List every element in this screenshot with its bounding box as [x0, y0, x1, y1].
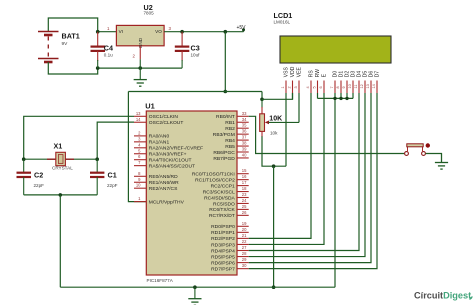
svg-text:X1: X1 [54, 142, 63, 151]
wire +5V to MCLR [128, 92, 146, 202]
wire LCD VSS [285, 93, 287, 166]
node +5V branch junction [224, 30, 228, 34]
svg-text:1: 1 [281, 86, 285, 88]
wire D0-D3 tie bar [318, 97, 354, 99]
node bottom ground junction [193, 285, 197, 289]
svg-text:33: 33 [242, 111, 247, 116]
svg-text:VI: VI [119, 29, 123, 34]
wire LCD D6 to RD6 [249, 93, 371, 263]
op-amp U1 PIC16F877A body [145, 101, 237, 283]
wire LCD RW to data bar [317, 93, 319, 98]
svg-text:40: 40 [242, 152, 247, 157]
svg-text:RB5: RB5 [225, 144, 235, 150]
svg-text:VSS: VSS [284, 67, 290, 78]
svg-text:13: 13 [136, 111, 141, 116]
svg-text:10K: 10K [269, 116, 282, 123]
svg-text:7805: 7805 [144, 11, 155, 16]
U1 right pins [192, 111, 249, 273]
U1 left pins [134, 111, 203, 206]
svg-text:RD4/PSP4: RD4/PSP4 [211, 248, 235, 254]
LCD1 pins [281, 66, 381, 93]
wire crystal horizontal [24, 158, 98, 160]
node crystal ground junction [59, 193, 63, 197]
pin 1 label U2 [107, 26, 110, 31]
svg-text:26: 26 [242, 210, 247, 215]
node crystal left [22, 157, 26, 161]
svg-text:VO: VO [155, 29, 162, 34]
wire pot junction to ground rail [273, 166, 275, 287]
svg-text:9: 9 [342, 86, 346, 88]
svg-text:RD2/PSP2: RD2/PSP2 [211, 236, 235, 242]
capacitor C4 [91, 32, 114, 68]
svg-text:8: 8 [336, 86, 340, 88]
node D2 bar junction [345, 97, 348, 100]
wire pot bottom [262, 136, 286, 166]
svg-text:U1: U1 [145, 101, 154, 110]
svg-text:10k: 10k [270, 130, 278, 135]
wire +5V horizontal rail [128, 91, 262, 93]
svg-text:RW: RW [315, 69, 321, 78]
svg-text:10: 10 [348, 84, 352, 88]
svg-text:RC1/T1OSI/CCP2: RC1/T1OSI/CCP2 [195, 177, 235, 183]
svg-text:RE1/AN6/WR: RE1/AN6/WR [149, 180, 179, 186]
svg-text:22pF: 22pF [107, 183, 118, 188]
svg-text:28: 28 [242, 251, 247, 256]
svg-text:21: 21 [242, 233, 247, 238]
svg-text:38: 38 [242, 141, 247, 146]
svg-text:RC3/SCK/SCL: RC3/SCK/SCL [203, 189, 235, 195]
node D1 bar junction [339, 97, 342, 100]
ground symbol below U2 [134, 68, 147, 86]
svg-text:LM016L: LM016L [274, 20, 291, 25]
svg-text:RC7/RX/DT: RC7/RX/DT [209, 213, 235, 219]
wire +5V vertical drop [224, 32, 226, 92]
wire LCD D7 to RD7 [249, 93, 377, 269]
svg-text:OSC2/CLKOUT: OSC2/CLKOUT [149, 120, 184, 126]
crystal X1 [47, 142, 74, 171]
svg-text:0.1u: 0.1u [104, 53, 113, 58]
svg-text:+5V: +5V [236, 25, 246, 31]
wire LCD VEE to pot wiper [298, 93, 300, 122]
wire +5V to pot and VDD [261, 92, 263, 100]
svg-text:CírcuitDigest: CírcuitDigest [414, 291, 471, 301]
svg-text:C3: C3 [191, 43, 200, 52]
svg-text:RA2/AN2/VREF-/CVREF: RA2/AN2/VREF-/CVREF [149, 146, 203, 152]
node pot ground junction [272, 164, 276, 168]
wire LCD D5 to RD5 [249, 93, 365, 257]
svg-text:22pF: 22pF [34, 183, 45, 188]
wire LCD D2 stub [346, 93, 348, 98]
wire OSC2 net [97, 122, 134, 159]
node D0 bar junction [333, 97, 336, 100]
svg-text:36: 36 [242, 129, 247, 134]
svg-text:6: 6 [319, 86, 323, 88]
wire LCD RS to RD2 [249, 93, 311, 238]
svg-text:16: 16 [242, 174, 247, 179]
svg-text:C4: C4 [104, 43, 113, 52]
svg-text:25: 25 [242, 204, 247, 209]
node VI/C4 junction [96, 30, 100, 34]
wire capacitor ground bus [24, 194, 98, 196]
svg-text:20: 20 [242, 227, 247, 232]
svg-text:RB1: RB1 [225, 120, 235, 126]
svg-text:RE2/AN7/CS: RE2/AN7/CS [149, 186, 178, 192]
svg-text:RB7/PGD: RB7/PGD [213, 156, 235, 162]
svg-text:14: 14 [136, 117, 141, 122]
node crystal right [95, 157, 99, 161]
svg-text:RB2: RB2 [225, 126, 235, 132]
wire LCD D3 stub [352, 93, 354, 98]
wire crystal bus to ground rail [59, 195, 61, 287]
svg-text:RC4/SDI/SDA: RC4/SDI/SDA [204, 195, 235, 201]
svg-text:27: 27 [242, 245, 247, 250]
wire VO net U2 to +5V terminal [164, 31, 243, 33]
svg-text:RC5/SDO: RC5/SDO [213, 201, 235, 207]
svg-text:CRYSTAL: CRYSTAL [52, 166, 73, 171]
svg-text:RD5/PSP5: RD5/PSP5 [211, 254, 235, 260]
svg-text:7: 7 [330, 86, 334, 88]
svg-text:39: 39 [242, 147, 247, 152]
power terminal +5V [236, 25, 246, 32]
svg-text:RC6/TX/CK: RC6/TX/CK [209, 207, 235, 213]
svg-text:OSC1/CLKIN: OSC1/CLKIN [149, 114, 179, 120]
wire bottom ground rail [60, 286, 335, 288]
capacitor C1 [90, 159, 118, 195]
svg-text:3: 3 [294, 86, 298, 88]
svg-text:24: 24 [242, 198, 247, 203]
svg-text:C1: C1 [108, 170, 117, 179]
svg-text:BAT1: BAT1 [62, 32, 80, 41]
svg-text:RD1/PSP1: RD1/PSP1 [211, 230, 235, 236]
svg-text:C2: C2 [34, 170, 43, 179]
svg-text:RA1/AN1: RA1/AN1 [149, 140, 170, 146]
svg-text:VEE: VEE [297, 67, 303, 78]
svg-text:RA0/AN0: RA0/AN0 [149, 134, 170, 140]
svg-text:37: 37 [242, 135, 247, 140]
svg-text:RA5/AN4/SS/C2OUT: RA5/AN4/SS/C2OUT [149, 163, 195, 169]
CircuitDigest logo [414, 291, 473, 301]
wire push button to ground [426, 154, 442, 163]
svg-text:RB6/PGC: RB6/PGC [213, 150, 235, 156]
svg-text:RA4/T0CKI/C1OUT: RA4/T0CKI/C1OUT [149, 158, 192, 164]
svg-text:11: 11 [354, 85, 358, 89]
svg-text:VDD: VDD [290, 66, 296, 77]
push button [405, 143, 430, 155]
svg-text:RE0/AN5/RD: RE0/AN5/RD [149, 174, 178, 180]
capacitor C3 [175, 32, 200, 68]
svg-text:29: 29 [242, 257, 247, 262]
svg-text:19: 19 [242, 221, 247, 226]
node pot top junction [260, 98, 264, 102]
pin 3 label U2 [169, 26, 172, 31]
wire RB0 to push button [249, 116, 405, 153]
capacitor C2 [17, 159, 45, 195]
pin 2 stub U2 GND [133, 46, 141, 68]
svg-text:2: 2 [288, 86, 292, 88]
svg-text:PIC16F877A: PIC16F877A [147, 278, 174, 283]
svg-text:18: 18 [242, 186, 247, 191]
node C4/battery junction [96, 66, 100, 70]
svg-text:10uf: 10uf [191, 53, 201, 58]
svg-text:4: 4 [306, 86, 310, 88]
svg-text:34: 34 [242, 117, 247, 122]
svg-text:15: 15 [242, 168, 247, 173]
op-amp U2 7805 regulator [116, 3, 164, 48]
svg-text:12: 12 [360, 84, 364, 88]
wire battery negative to ground rail [48, 62, 97, 74]
svg-text:RD6/PSP6: RD6/PSP6 [211, 260, 235, 266]
svg-text:RB0/INT: RB0/INT [216, 114, 235, 120]
node ground rail right junction [272, 285, 276, 289]
svg-text:RA3/AN3/VREF+: RA3/AN3/VREF+ [149, 152, 187, 158]
svg-text:RC2/CCP1: RC2/CCP1 [211, 183, 235, 189]
svg-text:30: 30 [242, 263, 247, 268]
node +5V rail junction [224, 90, 228, 94]
svg-text:13: 13 [366, 84, 370, 88]
svg-text:35: 35 [242, 123, 247, 128]
svg-text:MCLR/Vpp/THV: MCLR/Vpp/THV [149, 199, 185, 205]
wire LCD E to RD3 [249, 93, 324, 244]
wire LCD VDD [292, 93, 294, 99]
svg-text:5: 5 [313, 86, 317, 88]
svg-text:D7: D7 [375, 71, 381, 78]
LCD1 LM016L screen [274, 11, 392, 63]
battery BAT1 [38, 32, 80, 63]
wire ground rail C4-GND-C3 [98, 67, 182, 69]
wire LCD D1 stub [340, 93, 342, 98]
svg-text:17: 17 [242, 180, 247, 185]
resistor 10K potentiometer [260, 99, 299, 137]
svg-text:9V: 9V [62, 41, 69, 47]
svg-text:14: 14 [372, 84, 376, 88]
svg-text:RB3/PGM: RB3/PGM [213, 132, 235, 138]
wire LCD D4 to RD4 [249, 93, 359, 251]
wire VDD feed [262, 93, 293, 100]
svg-text:RD7/PSP7: RD7/PSP7 [211, 266, 235, 272]
wire LCD D0 to ground rail [334, 93, 336, 287]
svg-text:10: 10 [136, 183, 141, 188]
wire OSC1 net [24, 116, 134, 159]
svg-text:22: 22 [242, 239, 247, 244]
ground symbol bottom [188, 287, 201, 305]
svg-text:RC0/T1OSO/T1CKI: RC0/T1OSO/T1CKI [192, 172, 235, 178]
svg-text:RB4: RB4 [225, 138, 235, 144]
svg-text:RD0/PSP0: RD0/PSP0 [211, 224, 235, 230]
node U2 GND junction [138, 66, 142, 70]
node C3 top junction [180, 30, 184, 34]
wire battery positive loop (top) [48, 18, 97, 32]
svg-text:23: 23 [242, 192, 247, 197]
ground symbol push button [435, 154, 448, 170]
wire VI net battery to U2 [98, 31, 117, 33]
svg-text:RS: RS [309, 70, 315, 78]
svg-text:RD3/PSP3: RD3/PSP3 [211, 242, 235, 248]
